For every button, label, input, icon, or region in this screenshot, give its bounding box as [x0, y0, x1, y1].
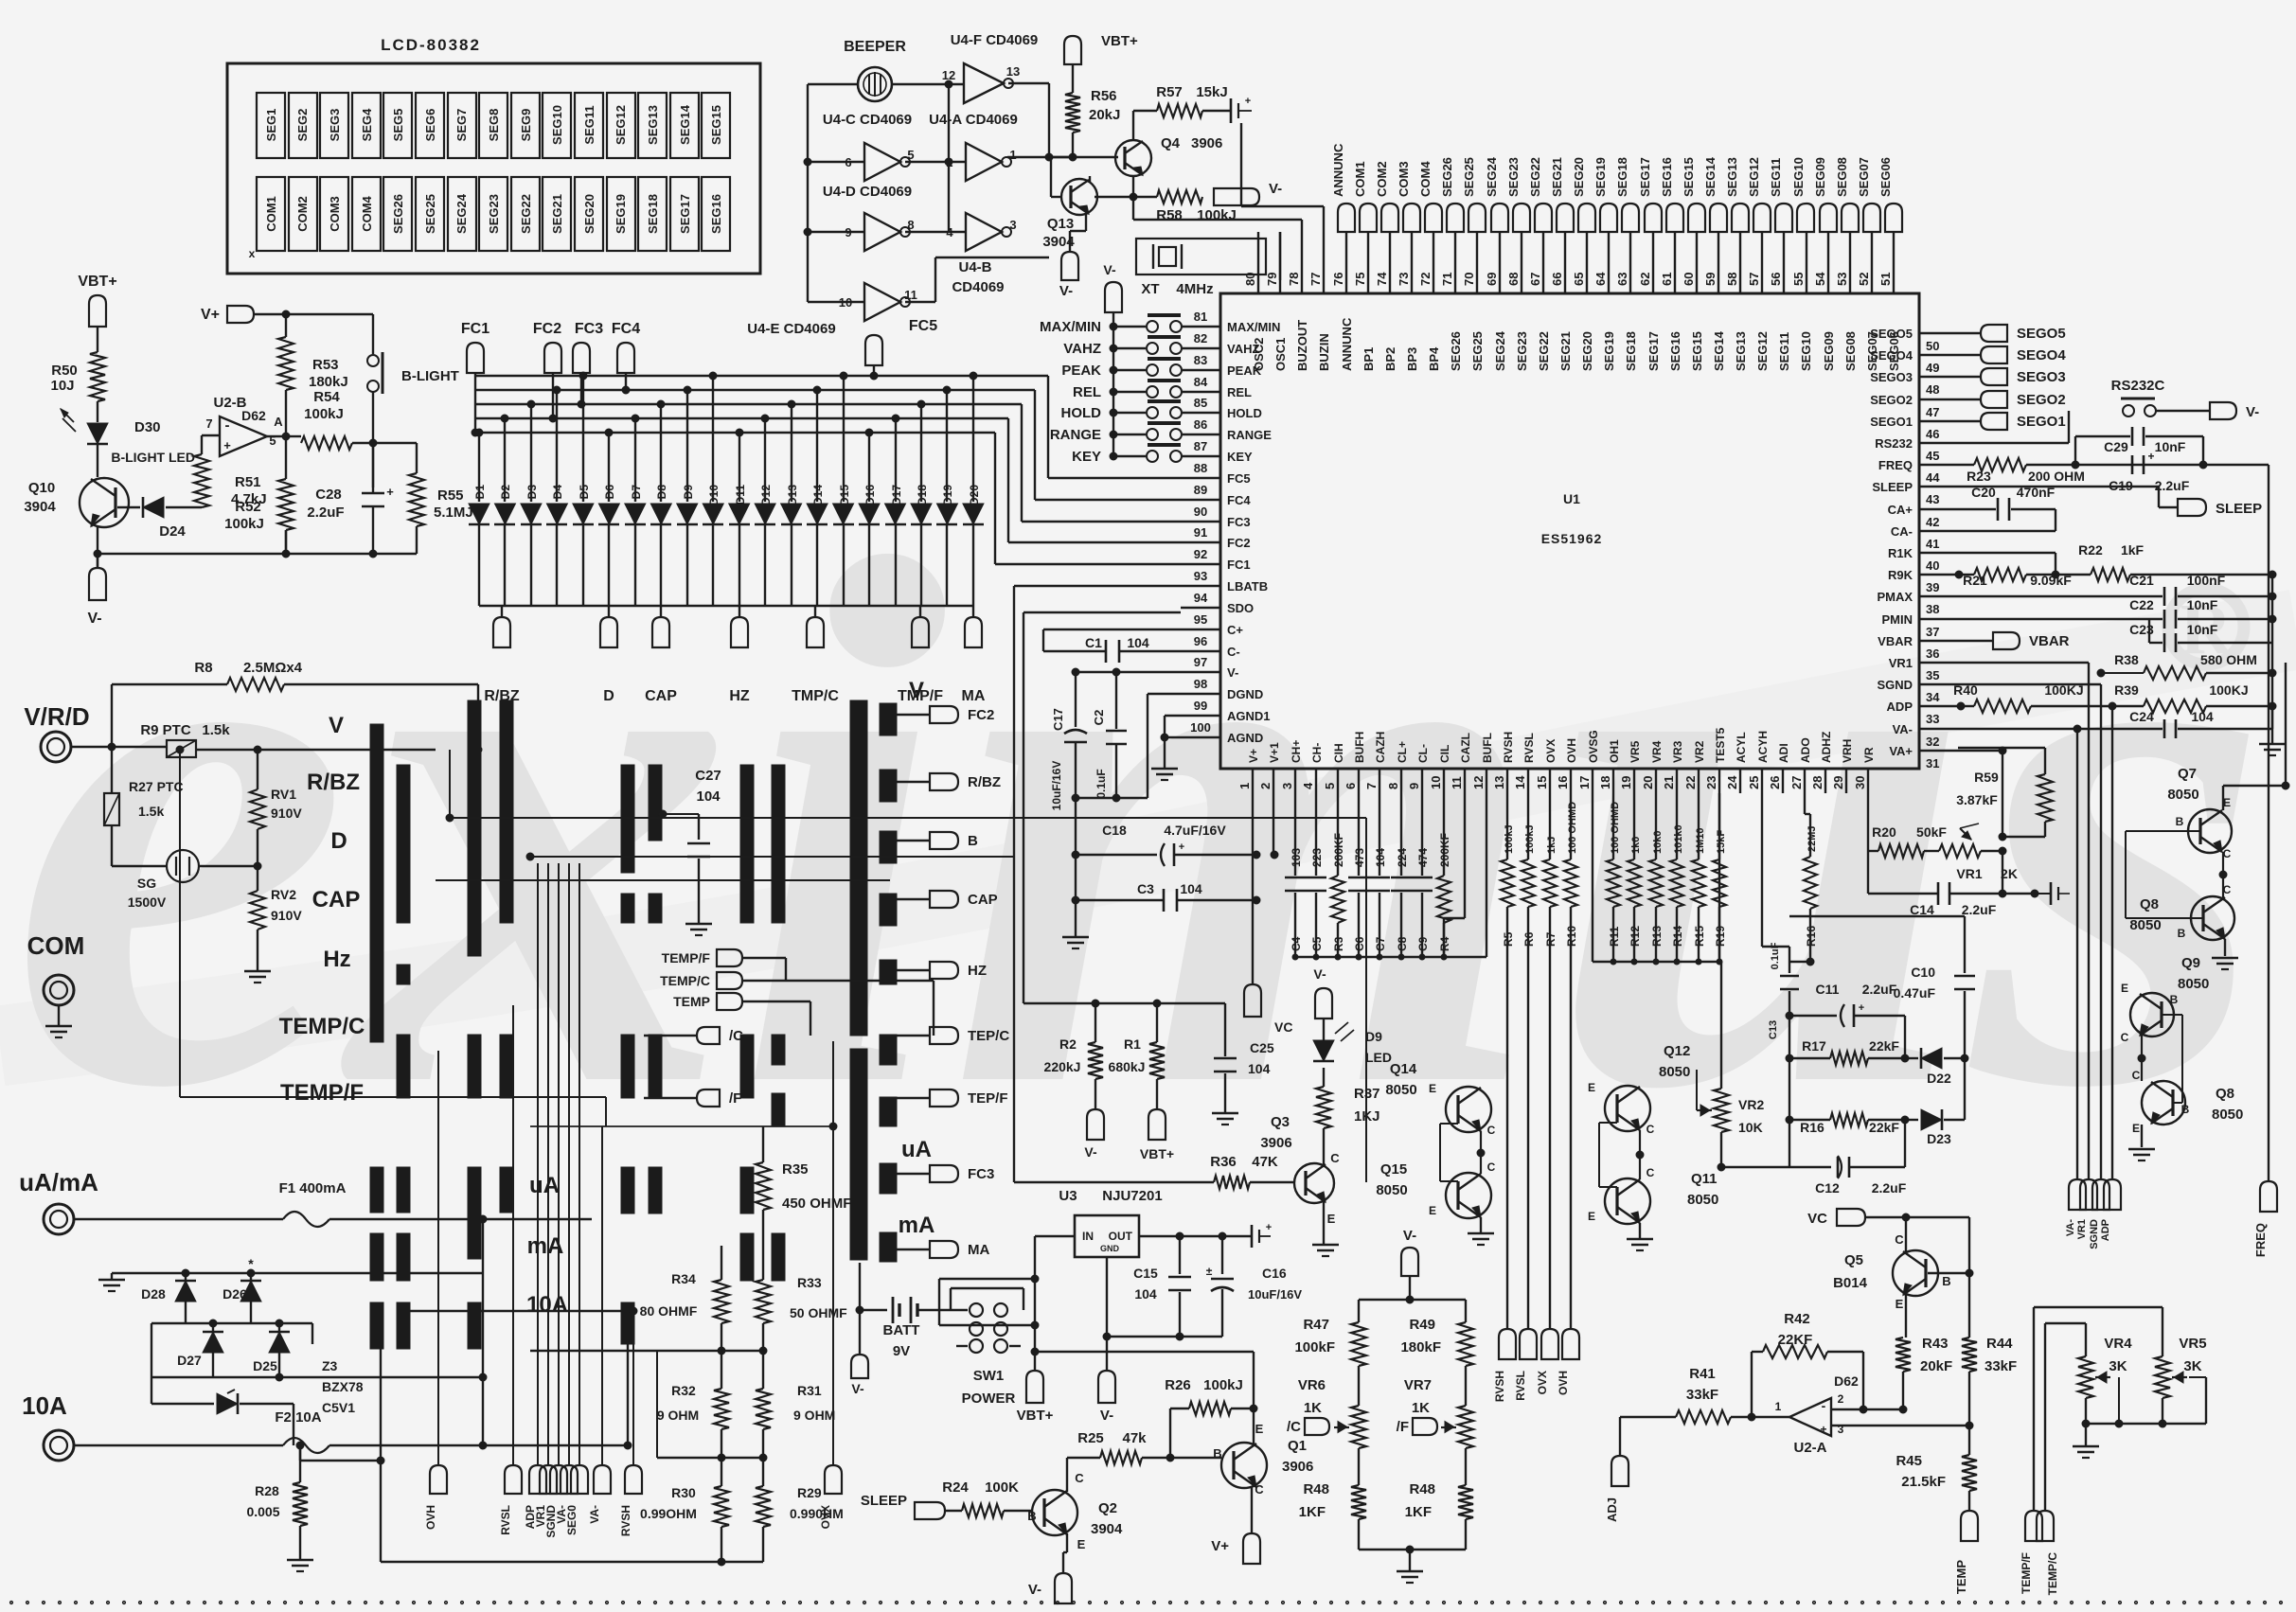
potentiometer VR7 1K	[1404, 1377, 1473, 1485]
svg-text:SLEEP: SLEEP	[861, 1493, 907, 1509]
svg-text:50: 50	[1926, 339, 1939, 353]
svg-text:C14: C14	[1910, 902, 1934, 917]
capacitor C19 2.2uF	[2109, 450, 2190, 493]
svg-text:SEG11: SEG11	[582, 105, 596, 144]
svg-text:OVX: OVX	[1544, 739, 1557, 763]
terminal SEG15 (top)	[1682, 157, 1705, 232]
svg-text:/F: /F	[1397, 1419, 1409, 1435]
svg-text:D19: D19	[941, 485, 954, 505]
svg-text:SEG0: SEG0	[565, 1505, 578, 1535]
resistor R32	[657, 1351, 729, 1458]
svg-text:30: 30	[1853, 776, 1867, 789]
svg-text:R34: R34	[671, 1271, 696, 1286]
svg-text:RVSL: RVSL	[499, 1505, 512, 1535]
U1 pin 17 OVSG	[1577, 730, 1600, 793]
svg-text:20: 20	[1641, 776, 1655, 789]
svg-text:LED: LED	[1365, 1050, 1392, 1065]
U1 pin 54 SEG09	[1813, 232, 1836, 371]
svg-text:Q8: Q8	[2216, 1086, 2234, 1102]
svg-text:91: 91	[1194, 525, 1207, 540]
terminal VA- (switch bottom)	[588, 1465, 611, 1524]
svg-text:33: 33	[1926, 712, 1939, 726]
terminal VBT+ (driver)	[1064, 33, 1138, 64]
svg-text:C21: C21	[2129, 573, 2154, 588]
U1 pin 43 SLEEP	[1872, 480, 1958, 506]
svg-text:D18: D18	[916, 485, 929, 505]
svg-text:R50: R50	[51, 363, 78, 379]
svg-text:100kJ: 100kJ	[1197, 207, 1237, 223]
svg-text:R8: R8	[194, 660, 212, 676]
LCD segment cell SEG14	[670, 93, 699, 158]
wire VR pin30 down	[1867, 793, 1869, 851]
svg-text:FC2: FC2	[533, 321, 561, 337]
terminal SEG13 (top)	[1725, 157, 1749, 232]
resistor R22 1kF	[2056, 542, 2276, 581]
svg-text:62: 62	[1638, 273, 1652, 286]
svg-text:VR1: VR1	[1889, 656, 1913, 670]
svg-text:SEG14: SEG14	[678, 104, 692, 145]
terminal RVSL (bottom)	[1514, 1329, 1537, 1401]
ground (VR4)	[2073, 1446, 2099, 1458]
svg-text:61: 61	[1660, 273, 1674, 286]
svg-text:SEG17: SEG17	[1638, 157, 1652, 197]
svg-text:SEG13: SEG13	[1725, 157, 1739, 197]
crystal XT 4MHz	[1136, 239, 1266, 297]
inverter U4-C	[845, 143, 914, 181]
svg-text:uA/mA: uA/mA	[19, 1168, 98, 1196]
svg-text:19: 19	[1619, 776, 1633, 789]
terminal VBAR	[1958, 632, 2070, 649]
svg-text:23: 23	[1704, 776, 1718, 789]
ground (C27)	[685, 924, 712, 935]
U1 pin 61 SEG16	[1660, 232, 1682, 371]
svg-text:VA+: VA+	[1889, 744, 1913, 758]
U1 pin 79 OSC1	[1265, 232, 1288, 371]
ground (Q3)	[1312, 1245, 1339, 1256]
svg-text:SEG17: SEG17	[678, 194, 692, 234]
diode D17	[885, 415, 906, 606]
svg-text:1kF: 1kF	[2121, 542, 2145, 558]
terminal TMP/F (diode out)	[898, 606, 943, 704]
svg-text:SEG24: SEG24	[454, 193, 469, 234]
wire V+ down to R53	[285, 314, 287, 337]
svg-text:V-: V-	[87, 611, 101, 627]
svg-text:R49: R49	[1409, 1317, 1435, 1333]
U1 pin 20 VR4	[1641, 740, 1664, 793]
svg-text:R32: R32	[671, 1383, 696, 1398]
svg-text:VR4: VR4	[1650, 740, 1664, 763]
svg-text:22kF: 22kF	[1869, 1038, 1899, 1054]
resistor R7 1kJ	[1543, 793, 1557, 947]
svg-text:D5: D5	[578, 485, 591, 500]
wire Q9/Q8 base link	[2163, 1015, 2182, 1103]
svg-text:R3: R3	[1332, 936, 1345, 951]
svg-text:1K: 1K	[1412, 1400, 1430, 1416]
svg-text:VBT+: VBT+	[1140, 1146, 1174, 1161]
pushbutton MAX/MIN	[1040, 315, 1182, 335]
resistor R9 PTC	[140, 722, 230, 757]
U1 pin 83 PEAK	[1181, 353, 1262, 378]
svg-text:VA-: VA-	[2065, 1219, 2076, 1236]
svg-text:-: -	[225, 417, 230, 434]
terminal V- (RS232)	[2210, 402, 2259, 420]
terminal SGND (bundle)	[2089, 1179, 2109, 1249]
resistor R15 1M10	[1692, 793, 1706, 962]
terminal SEG10 (top)	[1791, 157, 1814, 232]
capacitor C25 104	[1214, 1003, 1274, 1113]
resistor R1 680kJ	[1109, 1003, 1165, 1109]
svg-text:22MJ: 22MJ	[1807, 825, 1818, 852]
diode D26	[222, 1256, 261, 1323]
resistor R35 450 OHMF	[756, 1126, 851, 1280]
svg-text:R27 PTC: R27 PTC	[129, 779, 184, 794]
transistor Q9 8050	[2121, 955, 2210, 1044]
svg-text:SEG15: SEG15	[1682, 157, 1696, 197]
svg-text:RANGE: RANGE	[1050, 427, 1101, 443]
svg-text:C3: C3	[1137, 881, 1154, 896]
diode D16	[859, 429, 880, 606]
svg-text:SEG10: SEG10	[1791, 157, 1806, 197]
U1 pin 34 SGND	[1877, 678, 1958, 704]
wire Q9/Q8 collectors	[2128, 1036, 2155, 1160]
diode D3	[521, 400, 542, 606]
svg-text:CAP: CAP	[968, 892, 998, 908]
wire Q13 base rail	[1051, 157, 1073, 197]
svg-text:77: 77	[1308, 273, 1323, 286]
svg-text:OVH: OVH	[1565, 738, 1578, 763]
svg-text:3: 3	[1280, 783, 1294, 789]
terminal V- (U3)	[1098, 1337, 1115, 1424]
svg-text:470nF: 470nF	[2017, 485, 2056, 500]
svg-text:R36: R36	[1210, 1154, 1237, 1170]
svg-text:SEG26: SEG26	[391, 194, 405, 234]
wire net RVSH	[1506, 907, 1508, 1329]
svg-text:D4: D4	[551, 485, 564, 500]
svg-text:SEG13: SEG13	[1734, 331, 1748, 371]
svg-text:12: 12	[1471, 776, 1486, 789]
U1 pin 13 RVSH	[1492, 732, 1515, 793]
svg-text:BUFH: BUFH	[1353, 732, 1366, 763]
terminal CAP (diode out)	[645, 606, 677, 704]
svg-text:DGND: DGND	[1227, 687, 1263, 701]
svg-text:SEG13: SEG13	[646, 105, 660, 145]
svg-text:C13: C13	[1768, 1020, 1779, 1039]
svg-text:CIH: CIH	[1332, 743, 1345, 763]
resistor R58	[1095, 190, 1237, 223]
svg-text:SEG24: SEG24	[1485, 156, 1499, 197]
svg-text:85: 85	[1194, 396, 1207, 410]
varistor RV2	[250, 829, 302, 971]
terminal COM3 (top)	[1397, 161, 1420, 232]
wire VC to Q5 collector	[1905, 1217, 1907, 1253]
LCD segment cell SEG9	[511, 93, 540, 158]
wire VR4/VR5 bottom	[2082, 1377, 2206, 1446]
svg-text:95: 95	[1194, 612, 1207, 627]
potentiometer VR1 2K	[1924, 824, 2018, 881]
wire Q5 base	[1928, 1217, 1973, 1337]
svg-text:VR: VR	[1862, 747, 1876, 763]
svg-text:SEGO2: SEGO2	[2017, 392, 2066, 408]
svg-text:R30: R30	[671, 1485, 696, 1500]
svg-text:PEAK: PEAK	[1227, 363, 1262, 378]
svg-text:68: 68	[1506, 273, 1521, 286]
svg-text:1kJ: 1kJ	[1546, 837, 1557, 854]
svg-text:3.87kF: 3.87kF	[1956, 792, 1998, 807]
svg-text:BATT: BATT	[883, 1322, 920, 1338]
svg-text:Q15: Q15	[1380, 1161, 1407, 1178]
svg-text:CAP: CAP	[312, 887, 361, 912]
svg-text:47K: 47K	[1252, 1154, 1278, 1170]
terminal TMP/C (diode out)	[792, 606, 839, 704]
terminal COM2 (top)	[1375, 161, 1398, 232]
svg-text:104: 104	[696, 788, 721, 805]
svg-text:SEG5: SEG5	[391, 109, 405, 142]
svg-text:Hz: Hz	[323, 947, 350, 972]
resistor R25 47k	[1077, 1430, 1221, 1464]
ground (COM)	[45, 1026, 72, 1037]
cap at R57 right	[1202, 96, 1252, 123]
svg-text:C20: C20	[1971, 485, 1996, 500]
svg-text:V+: V+	[201, 307, 220, 323]
transistor Q3 3906	[1260, 1114, 1340, 1226]
svg-text:87: 87	[1194, 439, 1207, 453]
svg-text:BP3: BP3	[1405, 347, 1419, 371]
terminal TEMP/C (pair)	[2037, 1511, 2059, 1595]
resistor R17 22kF	[1789, 1038, 1909, 1065]
label U4-C	[823, 112, 912, 128]
svg-text:SEG3: SEG3	[328, 109, 342, 142]
svg-text:2: 2	[1838, 1392, 1844, 1406]
svg-text:R52: R52	[235, 499, 261, 515]
svg-text:R31: R31	[797, 1383, 822, 1398]
svg-text:R45: R45	[1896, 1453, 1922, 1469]
svg-text:R20: R20	[1872, 824, 1896, 840]
wire TEMP cluster	[742, 958, 934, 1036]
capacitor C28	[307, 485, 394, 554]
svg-text:Q7: Q7	[2178, 766, 2197, 782]
svg-text:90: 90	[1194, 505, 1207, 519]
svg-text:R16: R16	[1805, 926, 1818, 947]
svg-text:RV2: RV2	[271, 887, 296, 902]
svg-text:C9: C9	[1416, 936, 1430, 951]
terminal SEG16 (top)	[1660, 157, 1683, 232]
svg-text:47: 47	[1926, 405, 1939, 419]
svg-text:66: 66	[1550, 273, 1564, 286]
transistor Q8 8050 (lower)	[2132, 1069, 2244, 1135]
svg-text:CAZH: CAZH	[1374, 732, 1387, 763]
svg-text:89: 89	[1194, 483, 1207, 497]
svg-text:+: +	[1179, 841, 1184, 853]
terminal VBT+ (R1)	[1140, 1109, 1174, 1161]
varistor RV1	[250, 750, 302, 829]
resistor R16 22MJ	[1804, 793, 1818, 962]
svg-text:100KJ: 100KJ	[2044, 682, 2083, 698]
wire TEMP/F loop	[2034, 1307, 2163, 1511]
U1 pin 76 ANNUNC	[1331, 232, 1354, 371]
svg-text:+: +	[1266, 1222, 1272, 1233]
svg-text:7: 7	[205, 416, 212, 431]
wire U3 out rail	[1139, 1232, 1252, 1240]
svg-text:R37: R37	[1354, 1086, 1380, 1102]
LCD pin cell SEG16	[702, 177, 730, 251]
svg-text:E: E	[1588, 1210, 1595, 1223]
terminal SEGO4	[1958, 346, 2066, 363]
capacitor C27 104	[659, 768, 721, 924]
svg-text:TEMP/C: TEMP/C	[2046, 1552, 2059, 1596]
svg-text:U4-E CD4069: U4-E CD4069	[747, 321, 835, 337]
svg-text:2.5MΩx4: 2.5MΩx4	[243, 660, 303, 676]
svg-text:1.5k: 1.5k	[138, 804, 164, 819]
resistor R28 0.005	[246, 1445, 308, 1560]
svg-text:B014: B014	[1833, 1275, 1868, 1291]
svg-text:22kF: 22kF	[1869, 1120, 1899, 1135]
diode D22	[1905, 1048, 1968, 1086]
svg-text:25: 25	[1747, 776, 1761, 789]
svg-text:34: 34	[1926, 690, 1940, 704]
svg-text:VR7: VR7	[1404, 1377, 1432, 1393]
resistor R49 180kF	[1400, 1317, 1473, 1406]
svg-text:33kF: 33kF	[1686, 1387, 1718, 1403]
wire U4-F out	[1008, 83, 1049, 157]
U1 pin 86 RANGE	[1181, 417, 1272, 442]
switch contact bar column 1	[370, 724, 383, 1349]
U1 pin 52 SEG07	[1857, 232, 1879, 371]
svg-text:REL: REL	[1073, 384, 1101, 400]
resistor R44 33kF	[1962, 1336, 2017, 1424]
U1 pin 63 SEG18	[1615, 232, 1638, 371]
wire Q13 collector to R58	[1089, 176, 1091, 183]
svg-text:B: B	[1942, 1274, 1950, 1288]
resistor R23 200 OHM	[1958, 458, 2269, 484]
U1 pin 11 CAZL	[1450, 733, 1472, 793]
label switch row mA	[527, 1233, 564, 1259]
wire route B	[526, 853, 1014, 860]
svg-text:46: 46	[1926, 427, 1939, 441]
terminal SEGO5	[1958, 325, 2066, 342]
U1 pin 75 BP1	[1353, 232, 1376, 371]
svg-text:E: E	[2121, 982, 2128, 995]
svg-text:ACYH: ACYH	[1756, 731, 1770, 763]
svg-text:C+: C+	[1227, 623, 1243, 637]
svg-text:97: 97	[1194, 655, 1207, 669]
svg-text:V: V	[329, 713, 344, 738]
svg-text:18: 18	[1598, 776, 1612, 789]
resistor R37 1KJ	[1316, 1086, 1380, 1165]
svg-text:450 OHMF: 450 OHMF	[782, 1196, 851, 1212]
diode D4	[546, 386, 567, 606]
terminal SEG20 (top)	[1572, 157, 1595, 232]
U1 pin 27 ADO	[1789, 737, 1812, 793]
terminal SEG21 (top)	[1550, 157, 1574, 232]
svg-text:100K: 100K	[985, 1479, 1019, 1496]
wire DGND row	[1072, 694, 1181, 802]
svg-text:104: 104	[1134, 1286, 1157, 1302]
diode D7	[625, 415, 646, 606]
svg-text:3: 3	[1009, 218, 1016, 232]
svg-text:SEG12: SEG12	[1755, 331, 1770, 371]
ground (RV2)	[244, 971, 271, 983]
svg-text:8050: 8050	[2178, 976, 2209, 992]
svg-text:V-: V-	[1059, 283, 1073, 299]
svg-text:D17: D17	[890, 485, 903, 505]
svg-text:3K: 3K	[2109, 1358, 2127, 1374]
svg-text:V/R/D: V/R/D	[24, 702, 89, 731]
svg-text:1KJ: 1KJ	[1354, 1108, 1380, 1125]
svg-text:TEP/C: TEP/C	[968, 1028, 1009, 1044]
capacitor C12 2.2uF	[1718, 1120, 1907, 1196]
svg-text:28: 28	[1810, 776, 1824, 789]
svg-text:MA: MA	[962, 688, 986, 704]
svg-text:E: E	[1588, 1081, 1595, 1094]
svg-text:100 OHMD: 100 OHMD	[1610, 802, 1621, 854]
svg-text:OVX: OVX	[819, 1505, 832, 1529]
svg-text:mA: mA	[899, 1213, 935, 1238]
wire SDO box	[1023, 612, 1225, 1007]
U1 pin 36 VBAR	[1878, 634, 1958, 661]
svg-text:B: B	[2176, 815, 2184, 828]
label switch row CAP	[312, 887, 361, 912]
svg-text:COM3: COM3	[328, 196, 342, 232]
svg-text:D62: D62	[1834, 1373, 1859, 1389]
LCD segment cell SEG5	[383, 93, 412, 158]
terminal SEGO3	[1958, 368, 2066, 385]
svg-text:R48: R48	[1303, 1481, 1329, 1497]
resistor R27 PTC	[104, 747, 184, 866]
svg-text:CL+: CL+	[1396, 741, 1409, 763]
svg-text:TEMP/C: TEMP/C	[660, 973, 710, 988]
svg-text:FC5: FC5	[909, 318, 937, 334]
svg-text:uA: uA	[529, 1173, 560, 1198]
svg-text:E: E	[1327, 1212, 1336, 1226]
terminal SEGO1	[1958, 413, 2066, 430]
svg-text:HZ: HZ	[968, 963, 987, 979]
resistor R54	[286, 389, 352, 450]
svg-text:D6: D6	[603, 485, 616, 500]
svg-text:PMAX: PMAX	[1877, 590, 1913, 604]
svg-text:POWER: POWER	[962, 1391, 1016, 1407]
wire F2 to 10A bar	[296, 1307, 632, 1449]
svg-text:V-: V-	[1227, 665, 1238, 680]
U1 pin 90 FC3	[1181, 505, 1251, 529]
U1 pin 57 SEG12	[1747, 232, 1770, 371]
IC U1 ES51962 body	[1220, 293, 1919, 769]
capacitor C10 0.47uF	[1789, 916, 1975, 1120]
wire ACYH to block	[1762, 793, 1789, 962]
potentiometer VR6 1K	[1298, 1377, 1366, 1485]
resistor R2 220kJ	[1044, 1003, 1103, 1109]
svg-text:FC3: FC3	[968, 1166, 994, 1182]
switch contact bar column 8	[772, 765, 785, 1281]
svg-text:XT: XT	[1141, 281, 1159, 297]
U1 pin 85 HOLD	[1181, 396, 1262, 420]
svg-text:IN: IN	[1082, 1230, 1094, 1243]
svg-text:83: 83	[1194, 353, 1207, 367]
svg-text:54: 54	[1813, 272, 1827, 286]
label switch row TEMP/F	[280, 1080, 364, 1106]
U1 pin 55 SEG10	[1791, 232, 1813, 371]
svg-text:R55: R55	[437, 487, 464, 504]
svg-text:8050: 8050	[2212, 1107, 2243, 1123]
svg-text:HOLD: HOLD	[1061, 405, 1102, 421]
U1 pin 19 VR5	[1619, 740, 1642, 793]
terminal TEMP/F (switch)	[662, 949, 742, 966]
svg-text:SEGO5: SEGO5	[1870, 327, 1913, 341]
wire Q10 emitter to V-	[97, 526, 98, 568]
svg-text:SEG08: SEG08	[1843, 331, 1858, 371]
terminal TEMP/F (pair)	[2020, 1511, 2042, 1594]
svg-text:R12: R12	[1629, 926, 1642, 947]
svg-text:R/BZ: R/BZ	[307, 770, 360, 795]
